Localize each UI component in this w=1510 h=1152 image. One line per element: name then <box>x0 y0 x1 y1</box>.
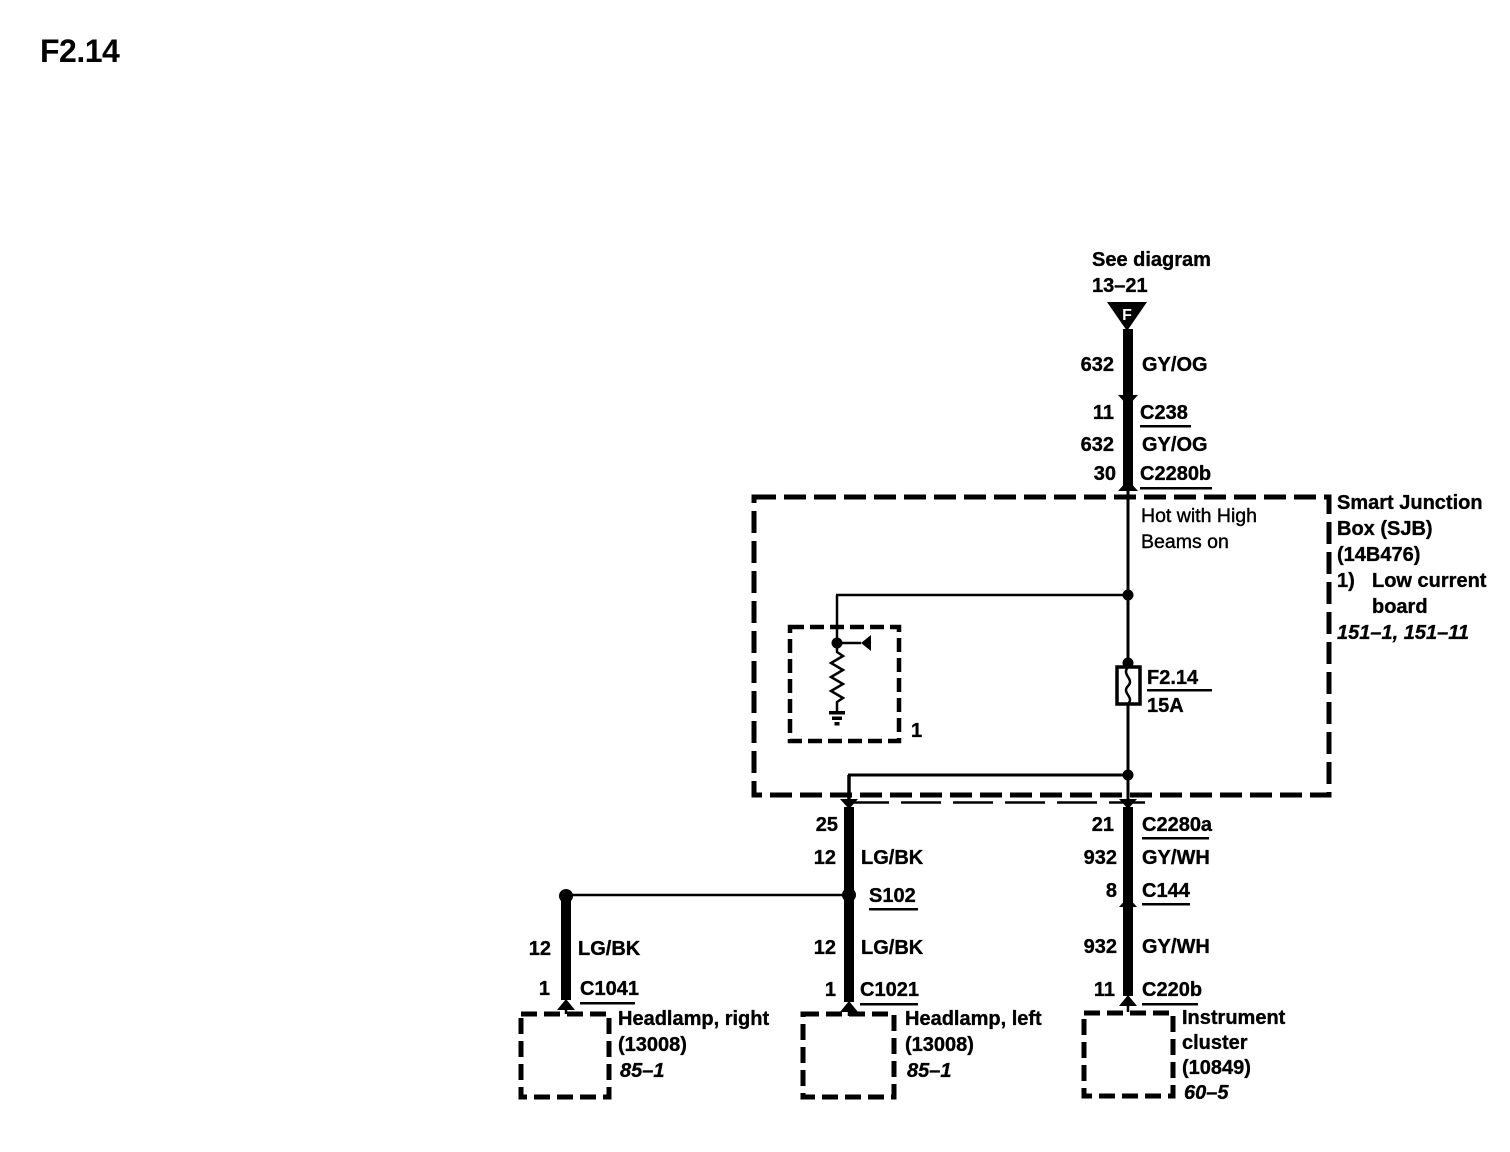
node: junction above fuse <box>1123 658 1134 669</box>
svg-text:932: 932 <box>1084 936 1117 958</box>
svg-text:Instrument: Instrument <box>1182 1007 1286 1029</box>
label LG/BK (left) <box>578 938 641 960</box>
label 932 <box>1084 847 1117 869</box>
label Instrument cluster (10849) 60-5 <box>1182 1007 1286 1104</box>
svg-text:(13008): (13008) <box>905 1034 974 1056</box>
svg-text:C1041: C1041 <box>580 978 639 1000</box>
svg-text:F: F <box>1122 307 1132 324</box>
svg-text:S102: S102 <box>869 885 916 907</box>
label F2.14 15A <box>1147 667 1212 717</box>
svg-text:F2.14: F2.14 <box>40 33 120 69</box>
svg-text:C2280b: C2280b <box>1140 463 1211 485</box>
svg-text:C144: C144 <box>1142 880 1191 902</box>
svg-text:GY/OG: GY/OG <box>1142 434 1208 456</box>
svg-text:GY/WH: GY/WH <box>1142 936 1210 958</box>
svg-text:board: board <box>1372 596 1428 618</box>
connector C2280a arrow left (pin 25) <box>840 799 858 809</box>
label LG/BK <box>861 847 924 869</box>
svg-text:12: 12 <box>814 847 836 869</box>
label 12 <box>814 847 836 869</box>
svg-text:Headlamp, left: Headlamp, left <box>905 1008 1042 1030</box>
wire: thin entering SJB down to fuse <box>1127 490 1130 666</box>
connector C2280a arrow right (pin 21) <box>1119 799 1137 809</box>
title F2.14 <box>40 33 120 69</box>
svg-text:Hot with High: Hot with High <box>1141 505 1257 527</box>
headlamp left dashed box <box>803 1014 894 1097</box>
svg-text:(13008): (13008) <box>618 1034 687 1056</box>
svg-text:1: 1 <box>825 979 836 1001</box>
pin 1 (C1041) <box>539 978 550 1000</box>
label Hot with High Beams on <box>1141 505 1257 553</box>
connector C1021 arrow (pin 1) <box>840 1001 858 1016</box>
svg-text:See diagram: See diagram <box>1092 249 1211 271</box>
Smart Junction Box (SJB) dashed enclosure <box>754 497 1329 795</box>
svg-text:632: 632 <box>1081 354 1114 376</box>
label Headlamp, left (13008) 85-1 <box>905 1008 1042 1082</box>
pin 25 <box>816 814 838 836</box>
svg-text:LG/BK: LG/BK <box>861 937 924 959</box>
node: right headlamp branch start <box>559 889 573 903</box>
pin 30 <box>1094 463 1116 485</box>
label C144 <box>1142 880 1191 906</box>
svg-text:15A: 15A <box>1147 695 1184 717</box>
wire: horizontal branch to indicator <box>836 594 1128 597</box>
pin 21 <box>1092 814 1114 836</box>
svg-text:Headlamp, right: Headlamp, right <box>618 1008 769 1030</box>
svg-text:932: 932 <box>1084 847 1117 869</box>
label wire 632 <box>1081 354 1114 376</box>
label C2280b <box>1140 463 1212 490</box>
wire: left branch drop out of SJB <box>847 775 851 801</box>
node: junction on main wire to indicator branch <box>1123 590 1134 601</box>
svg-text:C238: C238 <box>1140 402 1188 424</box>
svg-text:85–1: 85–1 <box>907 1060 952 1082</box>
svg-text:GY/WH: GY/WH <box>1142 847 1210 869</box>
svg-text:C1021: C1021 <box>860 979 919 1001</box>
pin 11 (C220b) <box>1094 979 1115 1001</box>
headlamp right dashed box <box>521 1014 609 1097</box>
svg-text:12: 12 <box>529 938 551 960</box>
svg-text:C2280a: C2280a <box>1142 814 1213 836</box>
wire: 12 LG/BK to right headlamp (thick) <box>561 900 571 1000</box>
svg-text:1): 1) <box>1337 570 1355 592</box>
label 1 (indicator item number) <box>911 720 922 742</box>
instrument cluster dashed box <box>1084 1013 1173 1096</box>
svg-text:11: 11 <box>1093 402 1114 424</box>
wire: 632 GY/OG from connector F to C238 <box>1123 329 1133 396</box>
connector C144 arrow (pin 8) <box>1119 897 1137 907</box>
label GY/OG (second) <box>1142 434 1208 456</box>
pin 1 (C1021) <box>825 979 836 1001</box>
label 932 (lower) <box>1084 936 1117 958</box>
svg-text:1: 1 <box>911 720 922 742</box>
label 12 (left) <box>529 938 551 960</box>
LED/indicator arrow (triangle) <box>861 635 871 651</box>
connector C220b arrow (pin 11) <box>1119 995 1137 1012</box>
label GY/WH (lower) <box>1142 936 1210 958</box>
svg-text:LG/BK: LG/BK <box>578 938 641 960</box>
label Smart Junction Box (SJB) (14B476) <box>1337 492 1487 644</box>
label C2280a <box>1142 814 1213 840</box>
svg-text:25: 25 <box>816 814 838 836</box>
wire: 12 LG/BK from C2280a to S102 (thick) <box>844 807 854 1002</box>
svg-text:LG/BK: LG/BK <box>861 847 924 869</box>
svg-text:(10849): (10849) <box>1182 1057 1251 1079</box>
scan echo line under SJB bottom border <box>849 801 1145 804</box>
pin 8 <box>1106 880 1117 902</box>
connector C2280b arrow (pin 30) <box>1118 480 1138 491</box>
resistor (indicator load) <box>831 647 843 711</box>
svg-text:Smart Junction: Smart Junction <box>1337 492 1483 514</box>
connector C1041 arrow (pin 1) <box>557 999 575 1014</box>
svg-text:21: 21 <box>1092 814 1114 836</box>
svg-text:Box (SJB): Box (SJB) <box>1337 518 1433 540</box>
svg-text:11: 11 <box>1094 979 1115 1001</box>
wire: 932 GY/WH from C2280a to C144 (thick) <box>1123 807 1133 996</box>
svg-text:1: 1 <box>539 978 550 1000</box>
node: junction at bottom distribution <box>1123 770 1134 781</box>
ground (inside SJB) <box>829 711 845 726</box>
svg-text:30: 30 <box>1094 463 1116 485</box>
svg-text:Low current: Low current <box>1372 570 1487 592</box>
wire: vertical drop into indicator box <box>836 595 839 647</box>
svg-text:Beams on: Beams on <box>1141 531 1229 553</box>
svg-text:cluster: cluster <box>1182 1032 1248 1054</box>
svg-text:(14B476): (14B476) <box>1337 544 1420 566</box>
label C1041 <box>580 978 639 1005</box>
svg-text:85–1: 85–1 <box>620 1060 665 1082</box>
wire: 632 GY/OG from C238 to C2280b <box>1123 396 1133 491</box>
svg-text:151–1, 151–11: 151–1, 151–11 <box>1337 622 1469 644</box>
label 12 (middle lower) <box>814 937 836 959</box>
label C220b <box>1142 979 1202 1006</box>
wire: horizontal distribution to left branch <box>848 774 1128 777</box>
svg-text:632: 632 <box>1081 434 1114 456</box>
node: junction inside indicator box <box>832 638 843 649</box>
label Headlamp, right (13008) 85-1 <box>618 1008 769 1082</box>
svg-text:12: 12 <box>814 937 836 959</box>
label GY/WH <box>1142 847 1210 869</box>
svg-text:C220b: C220b <box>1142 979 1202 1001</box>
svg-text:GY/OG: GY/OG <box>1142 354 1208 376</box>
label C1021 <box>860 979 919 1006</box>
svg-text:60–5: 60–5 <box>1184 1082 1229 1104</box>
svg-text:8: 8 <box>1106 880 1117 902</box>
wire: branch to LED arrow <box>837 642 861 645</box>
wire: horizontal from S102 to right headlamp branch <box>566 894 849 897</box>
svg-text:F2.14: F2.14 <box>1147 667 1199 689</box>
label LG/BK (middle lower) <box>861 937 924 959</box>
low current board indicator dashed box (item 1) <box>790 627 899 741</box>
label GY/OG <box>1142 354 1208 376</box>
pin 11 <box>1093 402 1114 424</box>
label S102 <box>869 885 918 911</box>
off-page connector F (triangle) <box>1107 302 1147 331</box>
note: See diagram 13-21 <box>1092 249 1211 297</box>
label C238 <box>1140 402 1191 428</box>
fuse F2.14 15A <box>1117 667 1140 704</box>
label wire 632 (second) <box>1081 434 1114 456</box>
svg-text:13–21: 13–21 <box>1092 275 1148 297</box>
splice S102 node <box>842 888 856 902</box>
wire: fuse to bottom junction <box>1127 704 1130 799</box>
connector C238 arrow (pin 11) <box>1118 395 1138 406</box>
